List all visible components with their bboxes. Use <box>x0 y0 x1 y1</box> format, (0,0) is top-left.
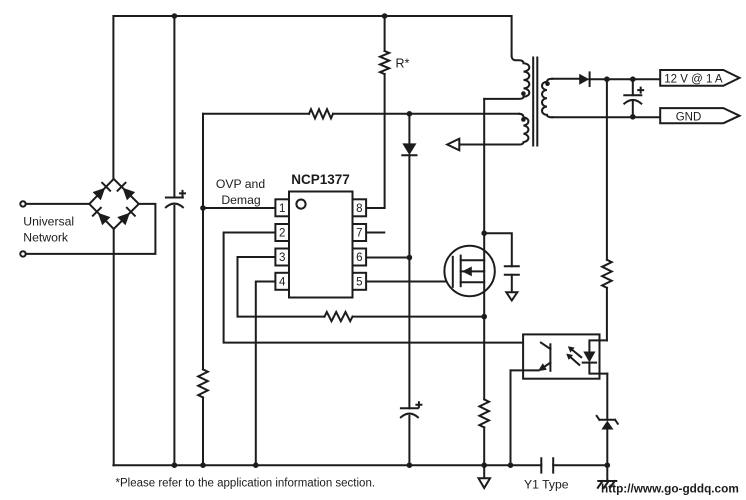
svg-text:6: 6 <box>356 252 362 264</box>
svg-text:Universal: Universal <box>23 215 74 229</box>
svg-text:R*: R* <box>396 57 410 71</box>
svg-text:8: 8 <box>356 203 362 215</box>
svg-text:2: 2 <box>279 228 285 240</box>
svg-text:7: 7 <box>356 228 362 240</box>
svg-text:GND: GND <box>676 112 702 124</box>
svg-text:NCP1377: NCP1377 <box>291 172 350 187</box>
svg-text:3: 3 <box>279 252 285 264</box>
svg-text:Demag: Demag <box>221 193 260 207</box>
svg-text:Network: Network <box>23 231 69 245</box>
svg-text:http://www.go-gddq.com: http://www.go-gddq.com <box>601 482 739 496</box>
svg-text:Y1 Type: Y1 Type <box>524 478 569 492</box>
svg-text:*Please refer to the applicati: *Please refer to the application informa… <box>116 478 376 490</box>
svg-text:1: 1 <box>279 203 285 215</box>
svg-text:OVP and: OVP and <box>216 177 265 191</box>
svg-text:12 V @ 1 A: 12 V @ 1 A <box>664 74 723 86</box>
svg-text:5: 5 <box>356 277 362 289</box>
svg-text:4: 4 <box>279 277 286 289</box>
